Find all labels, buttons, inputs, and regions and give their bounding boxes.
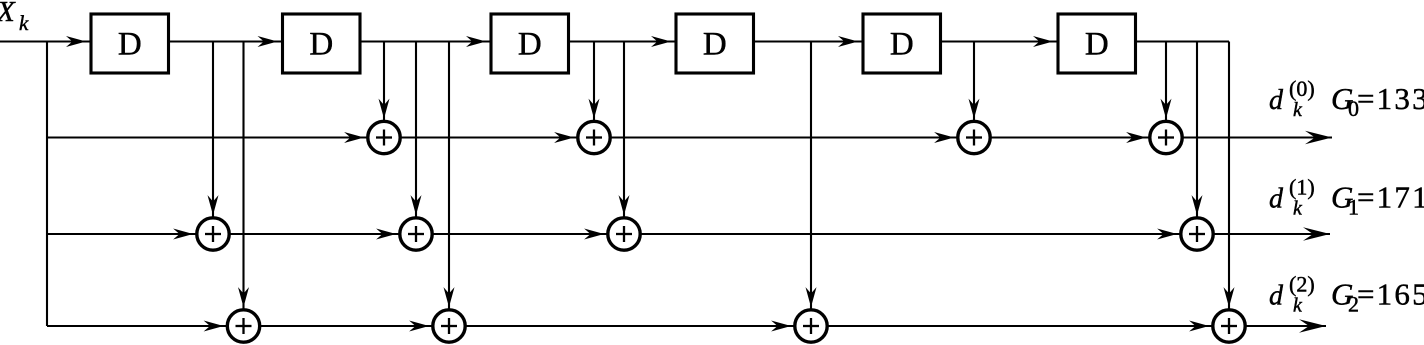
XOR adder 4 (G0 row) xyxy=(1150,121,1182,153)
XOR adder 11 (G2 row) xyxy=(795,310,827,342)
svg-text:k: k xyxy=(19,11,29,35)
svg-text:D: D xyxy=(118,27,142,63)
delay element D4 xyxy=(676,14,754,73)
svg-text:k: k xyxy=(1293,198,1303,220)
wire: tap x=384 down to G0 adder xyxy=(379,42,390,138)
wire: D1 output to D2 input xyxy=(169,36,283,47)
wire: G1 summing line into adder 3 xyxy=(416,229,624,240)
wire: G1 summing line into adder 1 xyxy=(47,229,213,240)
XOR adder 1 (G0 row) xyxy=(368,121,400,153)
wire: input line into D1 xyxy=(0,36,91,47)
XOR adder 5 (G1 row) xyxy=(197,218,229,250)
svg-text:D: D xyxy=(703,27,727,63)
svg-text:D: D xyxy=(309,27,333,63)
svg-text:(1): (1) xyxy=(1289,175,1315,200)
svg-text:k: k xyxy=(1293,295,1303,317)
output label dk(1) G1=171 xyxy=(1269,175,1424,220)
svg-text:d: d xyxy=(1269,184,1284,215)
delay element D1 xyxy=(91,14,169,73)
wire: D3 output to D4 input xyxy=(569,36,677,47)
svg-text:D: D xyxy=(890,27,914,63)
delay element D3 xyxy=(491,14,569,73)
XOR adder 12 (G2 row) xyxy=(1213,310,1245,342)
XOR adder 2 (G0 row) xyxy=(578,121,610,153)
svg-text:=165: =165 xyxy=(1357,277,1424,312)
svg-text:k: k xyxy=(1293,99,1303,121)
wire: G2 summing line into adder 1 xyxy=(47,321,244,332)
XOR adder 8 (G1 row) xyxy=(1181,218,1213,250)
wire: G0 summing line into adder 4 xyxy=(974,132,1166,143)
wire: G1 output arrow xyxy=(1197,227,1330,241)
svg-text:(2): (2) xyxy=(1289,272,1315,297)
wire: D5 output to D6 input xyxy=(941,36,1059,47)
wire: G1 summing line into adder 4 xyxy=(624,229,1197,240)
wire: tap x=243.5 down to G2 adder xyxy=(238,42,249,327)
wire: tap x=416 down to G1 adder xyxy=(411,42,422,235)
wire: G2 output arrow xyxy=(1229,319,1326,333)
wire: G2 summing line into adder 4 xyxy=(811,321,1229,332)
wire: G0 summing line into adder 1 xyxy=(47,132,384,143)
XOR adder 3 (G0 row) xyxy=(958,121,990,153)
svg-text:(0): (0) xyxy=(1289,76,1315,101)
wire: G1 summing line into adder 2 xyxy=(213,229,416,240)
wire: tap x=811 down to G2 adder xyxy=(806,42,817,327)
wire: D4 output to D5 input xyxy=(754,36,864,47)
svg-text:D: D xyxy=(518,27,542,63)
wire: tap x=624 down to G1 adder xyxy=(619,42,630,235)
svg-text:d: d xyxy=(1269,281,1284,312)
delay element D5 xyxy=(863,14,941,73)
svg-text:d: d xyxy=(1269,85,1284,116)
wire: input tap vertical feeding all three adder rows xyxy=(46,42,48,327)
delay element D2 xyxy=(283,14,361,73)
wire: G2 summing line into adder 3 xyxy=(449,321,811,332)
output label dk(0) G0=133 xyxy=(1269,76,1424,121)
wire: G2 summing line into adder 2 xyxy=(244,321,450,332)
svg-text:=171: =171 xyxy=(1357,180,1424,215)
svg-text:D: D xyxy=(1085,27,1109,63)
delay element D6 xyxy=(1058,14,1136,73)
XOR adder 9 (G2 row) xyxy=(227,310,259,342)
wire: G0 summing line into adder 2 xyxy=(384,132,594,143)
svg-text:X: X xyxy=(0,0,16,28)
wire: tap x=974 down to G0 adder xyxy=(969,42,980,138)
node Xk input label xyxy=(0,0,29,35)
wire: G0 output arrow xyxy=(1166,131,1332,145)
XOR adder 6 (G1 row) xyxy=(400,218,432,250)
wire: tap x=1229 down to G2 adder xyxy=(1224,42,1235,327)
wire: tap x=1166 down to G0 adder xyxy=(1161,42,1172,138)
wire: tap x=449 down to G2 adder xyxy=(444,42,455,327)
svg-text:=133: =133 xyxy=(1357,81,1424,116)
wire: D6 output across to rightmost tap xyxy=(1136,40,1230,42)
wire: tap x=213 down to G1 adder xyxy=(208,42,219,235)
wire: D2 output to D3 input xyxy=(360,36,491,47)
wire: tap x=1197 down to G1 adder xyxy=(1192,42,1203,235)
XOR adder 10 (G2 row) xyxy=(433,310,465,342)
output label dk(2) G2=165 xyxy=(1269,272,1424,317)
wire: tap x=594 down to G0 adder xyxy=(589,42,600,138)
XOR adder 7 (G1 row) xyxy=(608,218,640,250)
wire: G0 summing line into adder 3 xyxy=(594,132,974,143)
